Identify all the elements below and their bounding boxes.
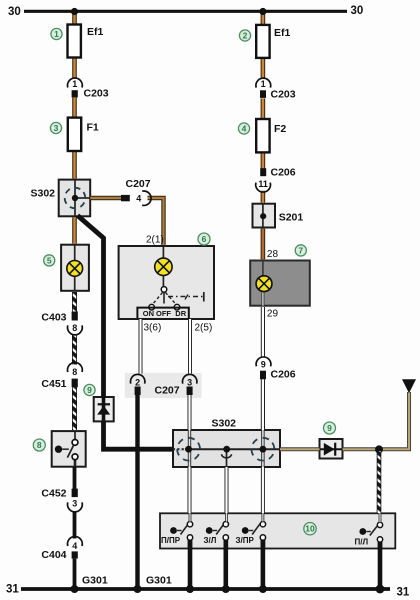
label 31 right [397,587,410,599]
svg-text:S302: S302 [31,188,56,200]
wire box8 to C452 [73,467,77,489]
node on bus 30 left [71,8,78,15]
wire Ef1 right to C203 right [261,58,266,78]
svg-text:30: 30 [351,5,364,17]
thick wire S302 upper to diode left [78,216,104,399]
svg-text:4: 4 [136,194,141,204]
node P/PR ground [186,585,194,593]
wire bus30 to Ef1 left [72,12,77,26]
svg-text:DR: DR [175,309,186,318]
svg-text:C207: C207 [126,178,151,190]
connector C203 left pin square [72,90,78,97]
fuse Ef1 left [68,25,81,58]
pin 11 of C206 [258,179,268,189]
connector C206 lower pin square [260,371,266,380]
svg-text:9: 9 [261,360,266,370]
label S302 upper [31,188,56,200]
door switch box 8 internals [55,431,78,467]
label C452 [41,488,66,500]
svg-text:1: 1 [54,29,59,39]
switch S201 box [253,204,276,228]
diode box left [94,397,114,421]
connector C203 left arc pin 1 [68,78,83,87]
svg-text:П/ПР: П/ПР [161,536,181,545]
pin 1 of C203 left [72,79,77,89]
fuse Ef1 right [256,25,269,58]
lamp cluster box10 switch P/L [359,513,382,548]
diode box right [320,439,343,459]
lamp cluster box10 switch Z/PR [242,513,266,548]
callout 9 left [84,384,95,395]
svg-text:ON: ON [143,309,154,318]
node Z/PR ground [259,585,267,593]
svg-text:10: 10 [305,524,315,534]
lamp unit box 7 [250,261,310,306]
svg-text:9: 9 [87,385,92,395]
label 30 right [351,5,364,17]
svg-text:C403: C403 [41,312,66,324]
thick wire diode left to S302 lower box [104,420,174,449]
connector C451 pin square [72,379,78,388]
connector strip C207 pin 3 square [187,387,193,396]
pin 9 of C206 lower [261,360,266,370]
connector strip C207 arc pin 2 [131,374,145,383]
callout 8 [33,439,45,451]
wire C451 to door switch box 8 (striped) [72,387,77,430]
pin 4 of C207 [136,194,141,204]
label Ef1 right [274,27,291,39]
door switch box 8 [52,431,86,467]
node P/L ground on bus 31 [376,585,385,594]
svg-text:S302: S302 [212,418,237,430]
diode right symbol [320,443,343,456]
DRL switch box6 internals: pivot and levers [149,287,204,310]
label C206 upper [271,167,296,179]
lamp cluster box10 switch Z/L [206,513,229,548]
label 31 left [6,584,19,596]
svg-text:8: 8 [72,323,77,333]
bus bar 30 [24,10,347,13]
wire F1 to S302 upper [72,151,77,178]
wire S302 lower to switch Z/L [225,467,229,513]
connector C404 arc pin 4 [68,537,83,546]
svg-text:1: 1 [72,79,77,89]
wire C452 arc3 to arc4 C404 [73,512,77,539]
node on bus 30 right [259,8,266,15]
fuse F1 [68,118,81,151]
svg-text:4: 4 [72,541,77,551]
label F1 [87,122,99,134]
label G301 mid [146,575,172,587]
fuse F2 [256,119,269,152]
wire C207 pin3 to S302 lower [188,393,192,430]
light switch S302 (upper box) [59,180,90,217]
svg-text:11: 11 [258,179,268,189]
svg-text:Ef1: Ef1 [87,26,104,38]
label Z/L [204,536,217,545]
pin 4 of C404 [72,541,77,551]
callout 3 [50,122,61,133]
callout 4 [238,123,249,134]
svg-text:8: 8 [72,367,77,377]
connector C206 lower arc pin 9 [256,357,271,366]
svg-text:7: 7 [298,245,303,255]
off-page arrow (to turn signal feed) [402,379,416,393]
lamp cluster box 10 [160,513,395,548]
pin 2(5) of DRL switch [195,323,213,334]
node junction diode output [375,445,383,453]
wire S302 upper to lamp box 5 [72,218,77,244]
wire C206 lower to S302 lower box [261,379,265,430]
pin 1 of C203 right [261,79,266,89]
label Z/PR [236,536,255,545]
node G301 left on bus 31 [71,585,79,593]
svg-text:8: 8 [37,440,42,450]
label S201 [279,212,304,224]
svg-text:6: 6 [202,234,207,244]
svg-text:29: 29 [267,309,279,320]
ground wire switch P/L to bus 31 [378,542,383,589]
label C403 [41,312,66,324]
connector C203 right pin square [260,90,266,98]
svg-text:C207: C207 [155,385,180,397]
lamp cluster box10 switch P/PR [170,513,193,548]
svg-text:C203: C203 [84,88,109,100]
labels ON OFF DR [143,309,187,318]
light switch S302 (lower box) [173,430,280,467]
svg-text:C452: C452 [41,488,66,500]
svg-text:2(5): 2(5) [195,323,213,334]
svg-text:S201: S201 [279,212,304,224]
callout 9 right [324,422,336,434]
node Z/L ground [222,585,230,593]
lamp 5 internals [67,245,83,291]
svg-text:3(6): 3(6) [144,323,162,334]
connector C404 pin square [72,551,78,558]
thick ground wire C207 pin2 to bus 31 [135,393,139,589]
svg-text:1: 1 [261,79,266,89]
connector C207 pin4 square [121,195,130,201]
connector C452 arc pin 3 [68,502,83,511]
svg-text:З/ПР: З/ПР [236,536,255,545]
wire S201 to lamp box 7 pin 28 [261,229,266,260]
switch S302 upper internals [61,180,91,217]
wire S302 upper to connector C207 pin 4 [90,196,121,200]
label C203 left [84,88,109,100]
svg-text:9: 9 [327,423,332,433]
lamp box 7 internals [256,261,272,306]
pin 2 of C207 strip [135,378,140,388]
callout 5 [44,255,55,266]
wire C207 pin4 to DRL switch terminal 2(1) [148,198,164,245]
wire DRL switch 3(6) to C207 strip pin 2 [139,319,143,374]
pin 8 of C403 [72,323,77,333]
label C203 right [271,89,296,101]
bus bar 31 [21,587,390,591]
svg-text:G301: G301 [82,575,108,587]
S302 lower internals [173,430,280,467]
connector C206 upper arc pin 11 [256,183,271,192]
label 30 left [8,6,21,18]
svg-text:3: 3 [54,123,59,133]
svg-text:OFF: OFF [156,309,171,318]
pin 3 of C207 strip [187,378,192,388]
connector strip C207 pin 2 square [135,387,141,396]
switch S201 internals [260,204,266,228]
label G301 left [82,575,108,587]
label C206 lower [271,369,296,381]
DRL switch box 6 [119,246,214,319]
diode left symbol [97,398,110,420]
wire C203 to F1 [72,97,77,118]
wire C203 right to F2 [261,98,266,119]
label C451 [41,378,66,390]
svg-text:4: 4 [242,124,247,134]
connector C403 pin square [72,312,78,321]
ground wire switch Z/PR to bus 31 [261,540,266,589]
svg-text:3: 3 [72,499,77,509]
label C404 [41,549,66,561]
label S302 lower [212,418,237,430]
connector C451 arc pin 8 [68,363,83,372]
wire C403 to C451 (striped) [72,335,77,365]
svg-text:3: 3 [187,378,192,388]
pin 3 of C452 [72,499,77,509]
wire DRL switch 2(5) to C207 strip pin 3 [188,319,192,374]
connector C207 pin4 arc [142,191,151,205]
svg-text:П/Л: П/Л [355,538,369,547]
connector C452 pin square [72,489,78,498]
callout 2 [239,30,250,41]
callout 7 [295,245,306,256]
label P/PR [161,536,181,545]
svg-text:F1: F1 [87,122,99,134]
wire bus30 to Ef1 right [261,12,266,26]
svg-text:2: 2 [135,378,140,388]
ground wire switch P/PR to bus 31 [188,540,193,589]
DRL switch box6 position bracket ON OFF DR [137,308,188,319]
callout 1 [51,28,62,39]
wire F2 to C206 [261,152,266,168]
pin 28 of lamp unit [267,249,279,260]
wire junction to switch P/L (striped) [377,451,382,513]
svg-text:C404: C404 [41,549,66,561]
wire lamp box5 to C403 (striped) [72,292,77,312]
svg-text:30: 30 [8,6,21,18]
DRL switch box6 internals: lamp [155,246,172,286]
ground wire switch Z/L to bus 31 [224,540,229,589]
label F2 [274,123,286,135]
svg-text:31: 31 [6,584,19,596]
svg-text:28: 28 [267,249,279,260]
svg-text:2: 2 [243,31,248,41]
wire lamp box 7 pin 29 to C206 lower [261,307,265,357]
callout 6 [198,233,210,245]
wire S302 lower to switch P/PR [188,467,192,513]
svg-text:F2: F2 [274,123,286,135]
wire C206 to S201 [261,191,266,203]
label P/L [355,538,369,547]
svg-text:G301: G301 [146,575,172,587]
pin 8 of C451 [72,367,77,377]
svg-text:C206: C206 [271,369,296,381]
pin 3(6) of DRL switch [144,323,162,334]
connector strip C207 arc pin 3 [183,374,197,383]
wire Ef1 to C203 left [72,58,77,78]
label Ef1 left [87,26,104,38]
svg-text:C206: C206 [271,167,296,179]
wire diode right to corner and arrow [343,392,410,449]
svg-text:5: 5 [47,255,52,265]
pin 29 of lamp unit [267,309,279,320]
svg-text:Ef1: Ef1 [274,27,291,39]
instrument illumination lamp box 5 [61,245,89,291]
label C207 strip [155,385,180,397]
connector C206 upper pin square [260,168,266,176]
callout 10 [304,523,316,535]
pin 2(1) of DRL switch [146,235,164,246]
label C207 at pin 4 [126,178,151,190]
connector strip C207 [125,373,202,398]
svg-text:C203: C203 [271,89,296,101]
svg-text:З/Л: З/Л [204,536,217,545]
svg-text:2(1): 2(1) [146,235,164,246]
wire S302 lower to diode right [280,447,320,451]
svg-text:C451: C451 [41,378,66,390]
connector C203 right arc pin 1 [256,78,271,87]
svg-text:31: 31 [397,587,410,599]
connector C403 arc pin 8 [68,325,83,334]
wire S302 lower to switch Z/PR [261,467,265,513]
node G301 mid on bus 31 [134,585,142,593]
wire C404 to bus 31 [73,559,77,589]
